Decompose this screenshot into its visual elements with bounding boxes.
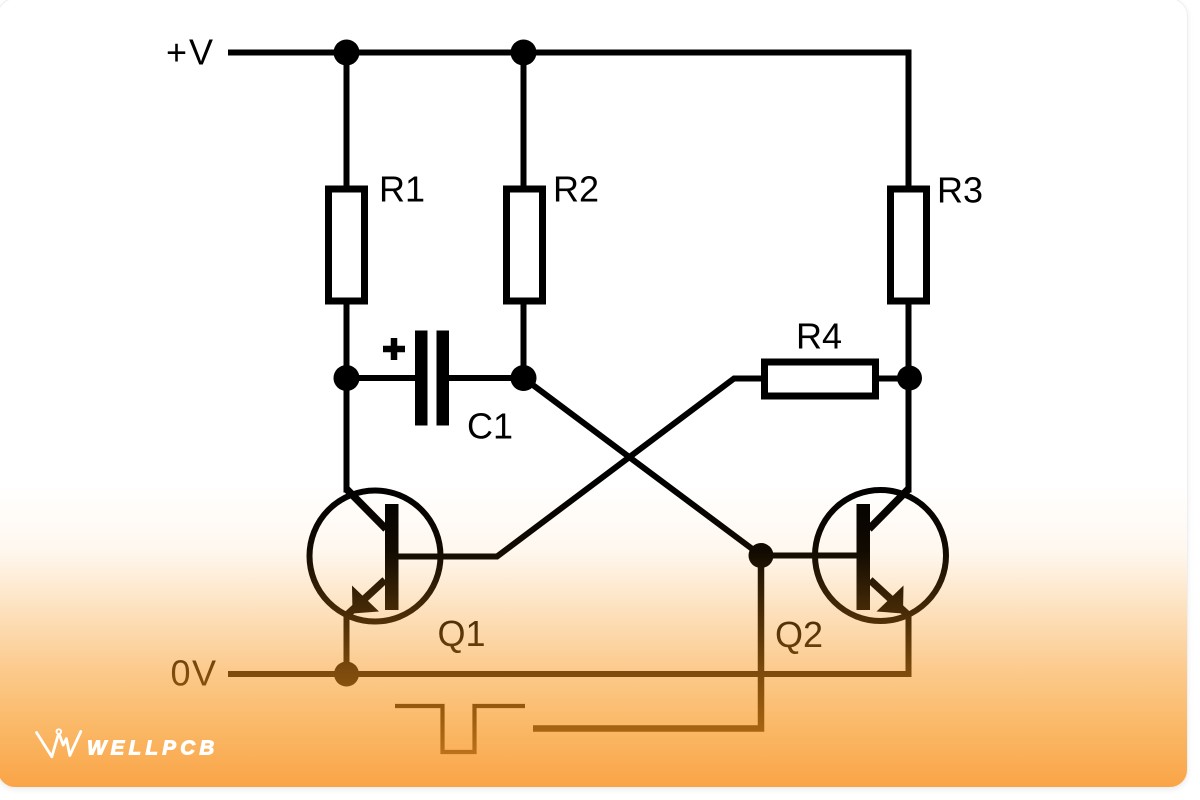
svg-text:R3: R3 [937,169,983,210]
wire R3 bottom lead [905,302,911,378]
transistor Q2 emitter diagonal [870,580,908,615]
resistor R2 [506,189,542,301]
wire R2 bottom lead to node B [520,302,526,378]
transistor Q2 emitter arrow [876,585,903,613]
node dot A (R1/C1) [333,365,359,391]
capacitor C1 polarity plus [383,338,405,360]
wire R2 top lead [520,52,526,189]
wire R4 right lead to node C [878,375,910,381]
node dot 0V rail [334,661,359,686]
transistor Q1 emitter arrow [352,585,379,613]
svg-text:0V: 0V [170,652,217,693]
resistor R4 [764,362,875,396]
svg-text:Q2: Q2 [775,614,823,655]
resistor R3 [890,189,926,301]
wire Q2 base node to transistor [761,552,857,558]
wire node C to Q2 collector [905,378,911,493]
wire R1 top lead [343,52,349,189]
svg-text:WELLPCB: WELLPCB [87,736,218,759]
transistor Q1 collector diagonal [346,489,386,529]
node dot top rail R1 [333,39,359,65]
svg-text:R4: R4 [796,315,842,356]
wire node A to Q1 collector [343,378,349,493]
transistor Q1 circle [309,490,440,621]
wire node A to C1 left plate [346,375,416,381]
wire R1 bottom lead to node A [343,302,349,378]
watermark logo W icon node circle [56,729,61,734]
svg-text:C1: C1 [467,405,513,446]
resistor R1 [328,189,364,301]
capacitor C1 right plate [436,330,449,425]
node dot Q2 base [748,543,773,568]
capacitor C1 left plate [415,330,428,425]
transistor Q2 collector diagonal [869,489,909,529]
svg-text:Q1: Q1 [437,613,485,654]
watermark logo W icon zigzag [59,731,80,755]
wire +V rail [228,52,909,186]
svg-text:+V: +V [166,31,215,72]
transistor Q2 base bar [856,504,870,610]
wire Q1 emitter lead [343,611,349,674]
transistor Q1 base bar [385,504,399,610]
node dot top rail R2 [510,39,536,65]
transistor Q2 circle [815,490,946,621]
wire trigger input [533,555,761,728]
svg-text:R2: R2 [553,168,599,209]
wire Q1 base to R4 left lead (cross-coupling) [398,378,762,556]
node dot C (R3/R4) [897,365,922,390]
wire C1 right plate to node B [448,375,524,381]
watermark logo W icon left V [36,729,218,759]
transistor Q1 emitter diagonal [347,580,385,615]
svg-text:R1: R1 [379,168,425,209]
wire 0V rail and Q2 emitter lead [228,611,909,674]
node dot B (R2/C1) [510,365,536,391]
trigger pulse symbol [395,706,525,752]
wire node B to Q2 base node (cross-coupling) [523,378,761,556]
